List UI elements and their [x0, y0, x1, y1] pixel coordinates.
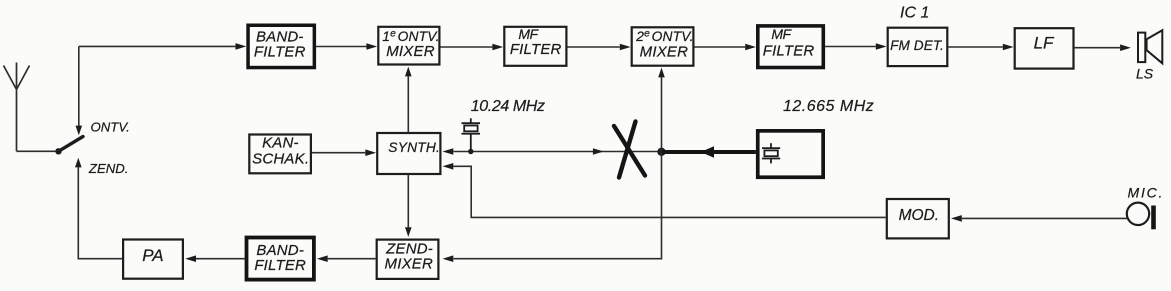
- wire ZEND-MIXER to BAND-FILTER TX: [328, 258, 376, 260]
- svg-text:MF: MF: [771, 26, 792, 42]
- thick wire crystal oscillator to LO node (arrow left): [662, 150, 756, 154]
- svg-text:FILTER: FILTER: [510, 41, 562, 58]
- block BAND-FILTER (RX), thick: [248, 25, 314, 67]
- svg-text:FM DET.: FM DET.: [890, 38, 944, 53]
- svg-text:12.665 MHz: 12.665 MHz: [783, 98, 874, 115]
- wire reference into SYNTH right side (arrow): [443, 148, 454, 155]
- loudspeaker LS: [1138, 33, 1145, 63]
- svg-text:SYNTH.: SYNTH.: [388, 140, 440, 155]
- block BAND-FILTER (TX), thick: [247, 238, 314, 280]
- svg-text:IC 1: IC 1: [900, 5, 929, 22]
- wire MF filter 2 to FM DET: [825, 46, 876, 48]
- svg-text:ZEND.: ZEND.: [88, 161, 129, 176]
- block MF FILTER (thick): [758, 26, 824, 68]
- wire 2e mixer to MF filter 2: [695, 46, 746, 48]
- microphone MIC: [1127, 203, 1149, 225]
- svg-text:FILTER: FILTER: [763, 43, 815, 60]
- block KAN-SCHAK.: [249, 135, 311, 174]
- block ZEND-MIXER: [377, 240, 439, 279]
- wire MIC to MOD (arrow into MOD): [962, 217, 1127, 219]
- block MOD.: [887, 199, 949, 238]
- mixer X symbol: [614, 126, 645, 176]
- svg-text:2eONTV.: 2eONTV.: [635, 29, 693, 45]
- wire 1e mixer to MF filter: [441, 46, 493, 48]
- svg-text:LF: LF: [1034, 34, 1055, 53]
- wire RX: switch to band-filter: [79, 45, 236, 47]
- svg-text:MIXER: MIXER: [386, 43, 435, 60]
- wire MF filter to 2e mixer: [568, 46, 620, 48]
- junction switch pivot: [55, 148, 61, 154]
- svg-text:PA: PA: [142, 246, 163, 265]
- svg-text:MOD.: MOD.: [899, 207, 939, 224]
- svg-text:SCHAK.: SCHAK.: [252, 151, 309, 168]
- junction dot LO node: [657, 148, 665, 156]
- block 2e ONTV. MIXER: [632, 27, 694, 65]
- antenna: [4, 63, 30, 152]
- block 1e ONTV. MIXER: [378, 27, 439, 65]
- svg-text:10.24 MHz: 10.24 MHz: [471, 98, 545, 115]
- wire antenna to switch pivot: [17, 150, 59, 152]
- block SYNTH.: [377, 133, 440, 174]
- svg-text:MIXER: MIXER: [640, 44, 689, 61]
- svg-text:MF: MF: [518, 26, 539, 42]
- wire FM DET to LF: [948, 46, 1002, 48]
- svg-text:KAN-: KAN-: [262, 135, 299, 152]
- wire SYNTH to ZEND-MIXER (LO down): [407, 174, 409, 227]
- wire BAND-FILTER TX to PA: [196, 258, 245, 260]
- block FM DET. (IC1): [888, 28, 948, 66]
- wire KAN-SCHAK to SYNTH: [312, 152, 365, 154]
- switch contact ONTV (arrow down): [78, 46, 80, 126]
- svg-text:ONTV.: ONTV.: [91, 120, 130, 135]
- block PA: [123, 240, 183, 279]
- block LF: [1015, 28, 1074, 68]
- switch contact ZEND (arrow up): [75, 158, 82, 168]
- svg-text:MIC.: MIC.: [1128, 185, 1165, 201]
- wire SYNTH to 1e mixer (LO up): [407, 76, 409, 133]
- svg-text:MIXER: MIXER: [385, 256, 434, 273]
- svg-text:LS: LS: [1136, 66, 1154, 82]
- svg-text:FILTER: FILTER: [254, 257, 306, 274]
- wire MOD to SYNTH (feedback, arrow into SYNTH): [443, 163, 454, 170]
- wire LO node up to 2e mixer (arrow): [661, 77, 663, 151]
- switch blade: [59, 137, 84, 152]
- svg-text:FILTER: FILTER: [254, 44, 306, 61]
- crystal X1 (10.24 MHz): [462, 118, 481, 149]
- wire PA to antenna switch (ZEND path): [78, 258, 123, 260]
- wire BAND-FILTER to 1e mixer: [316, 46, 367, 48]
- arrow into mixer X: [593, 148, 604, 155]
- crystal X2 symbol: [762, 143, 780, 163]
- wire LF to loudspeaker: [1075, 47, 1121, 49]
- junction dot crystal lead: [468, 149, 473, 154]
- wire LO node down and left to ZEND-MIXER: [454, 152, 662, 259]
- block MF FILTER (RX): [504, 27, 566, 66]
- block crystal oscillator 12.665 MHz (thick): [758, 131, 823, 177]
